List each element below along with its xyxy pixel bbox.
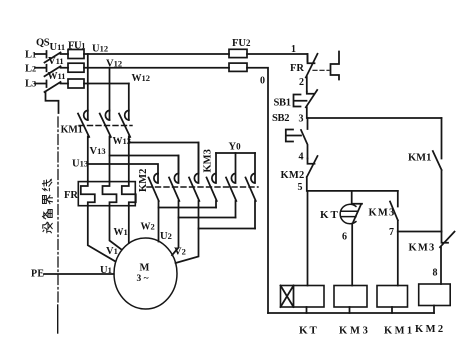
svg-text:W2: W2 xyxy=(141,222,155,233)
coil bottom wires xyxy=(307,306,435,314)
svg-text:V12: V12 xyxy=(106,59,122,70)
wire PE line xyxy=(44,273,114,275)
fuse FU1 element 3 xyxy=(68,79,84,88)
node W13 wire xyxy=(129,143,199,174)
svg-text:3: 3 xyxy=(299,114,304,125)
wire W1 to motor xyxy=(128,206,130,243)
coil KM2 xyxy=(419,284,451,306)
coil KT xyxy=(281,286,325,308)
contactor KM3 contact 2 bowl xyxy=(231,153,235,183)
node bus V2 wire xyxy=(199,228,256,230)
svg-text:2: 2 xyxy=(299,77,304,88)
svg-text:KM2: KM2 xyxy=(281,170,305,181)
contactor KM1 main contact 2 bowl xyxy=(105,110,109,119)
svg-text:M: M xyxy=(140,263,150,274)
timer KT delayed contact xyxy=(352,191,362,286)
svg-text:W1: W1 xyxy=(114,227,128,238)
node bus W2 wire xyxy=(159,201,217,208)
svg-text:V1: V1 xyxy=(106,246,118,257)
glyph xian xyxy=(43,179,52,190)
glyph bei xyxy=(43,210,53,219)
contactor KM3 NC contact (control) xyxy=(440,232,455,285)
svg-text:KM3: KM3 xyxy=(369,208,396,219)
KM1 contact 1 blade xyxy=(78,114,89,182)
relay FR NC contact xyxy=(306,54,318,92)
wire W12 xyxy=(84,83,129,85)
SB2 actuator xyxy=(286,130,301,142)
KM3 contact 1 blade xyxy=(207,178,217,208)
node bus U2 wire xyxy=(179,217,236,219)
wire L1 input xyxy=(35,51,47,58)
svg-text:L1: L1 xyxy=(25,50,36,61)
svg-text:7: 7 xyxy=(389,227,394,238)
coil KM1 xyxy=(377,286,408,308)
KM2 contact 2 blade xyxy=(169,178,179,218)
svg-text:U11: U11 xyxy=(50,42,66,53)
switch QS pole 2 blade xyxy=(45,66,69,76)
KM3 contact 2 blade xyxy=(226,178,236,218)
contactor KM3 contact 1 bowl xyxy=(212,153,216,183)
contactor KM1 main contact 3 bowl xyxy=(125,110,129,119)
svg-text:U12: U12 xyxy=(92,44,108,55)
svg-text:V2: V2 xyxy=(174,247,186,258)
wire to KT coil xyxy=(307,191,309,286)
svg-text:KM3: KM3 xyxy=(409,243,436,254)
wire U1 to motor xyxy=(88,206,116,262)
wire L2 input xyxy=(35,65,47,72)
FR actuator symbol xyxy=(331,52,340,80)
fuse FU2 element 2 xyxy=(229,63,247,71)
svg-text:KT: KT xyxy=(299,325,319,337)
svg-text:SB2: SB2 xyxy=(272,113,289,124)
svg-text:FR: FR xyxy=(290,63,304,74)
svg-text:KM1: KM1 xyxy=(408,153,431,164)
switch QS pole 3 blade xyxy=(45,82,69,92)
SB1 actuator xyxy=(294,95,307,107)
motor M circle xyxy=(114,238,177,309)
wire L3 input xyxy=(35,81,47,88)
fuse FU1 element 1 xyxy=(68,50,84,59)
node V13 wire xyxy=(110,156,179,174)
FR heater element 2 xyxy=(103,182,117,206)
contactor KM2 NC interlock contact xyxy=(307,156,318,191)
svg-text:W11: W11 xyxy=(48,71,66,82)
glyph she xyxy=(43,222,52,233)
svg-text:U2: U2 xyxy=(160,231,172,242)
contactor KM1 main contact 1 bowl xyxy=(84,110,88,119)
FR heater element 3 xyxy=(122,182,136,206)
svg-text:KM1: KM1 xyxy=(384,326,415,337)
wire V12 bus xyxy=(84,67,229,69)
wire V-phase drop xyxy=(109,68,111,120)
svg-text:FU1: FU1 xyxy=(68,40,85,51)
wire U2 to motor xyxy=(172,218,179,256)
svg-text:4: 4 xyxy=(299,152,304,163)
KM2 contact 1 blade xyxy=(149,178,159,202)
node 7 wire xyxy=(398,231,442,233)
node U13 wire xyxy=(88,164,158,174)
KM1 contact 2 blade xyxy=(100,114,111,182)
svg-text:KM1: KM1 xyxy=(61,124,83,135)
chinese text 设备界线 equipment boundary (rotated) xyxy=(43,179,53,233)
wire V1 to motor xyxy=(110,206,122,250)
wire PE jog below QS xyxy=(46,92,59,114)
svg-text:V11: V11 xyxy=(48,56,64,67)
svg-text:Y0: Y0 xyxy=(229,142,242,153)
KT coil divider and X xyxy=(281,286,294,308)
svg-text:U13: U13 xyxy=(72,159,88,170)
FR heater element 1 xyxy=(81,182,95,206)
svg-text:QS: QS xyxy=(36,38,50,49)
contactor KM2 contact 3 bowl xyxy=(194,143,198,184)
svg-text:W12: W12 xyxy=(132,73,151,84)
wire W2 to motor xyxy=(158,208,160,242)
wire node7 to KM1 coil xyxy=(397,232,399,286)
contactor KM3 NO contact (control) xyxy=(390,191,398,232)
svg-text:6: 6 xyxy=(342,232,347,243)
bottom bus wire xyxy=(268,312,434,314)
node 5 wire xyxy=(308,190,398,192)
svg-text:KT: KT xyxy=(320,209,340,221)
svg-text:5: 5 xyxy=(298,182,303,193)
svg-text:KM2: KM2 xyxy=(138,169,149,192)
KM2 contact 3 blade xyxy=(189,178,199,229)
KM3 contact 3 blade xyxy=(246,178,256,229)
svg-text:KM2: KM2 xyxy=(415,324,446,335)
svg-text:V13: V13 xyxy=(90,146,106,157)
wire control line 0 xyxy=(247,68,268,313)
KM1 contact 3 blade xyxy=(119,114,130,182)
switch QS pole 1 blade xyxy=(45,53,69,63)
KM2 KM3 linkage dashed xyxy=(147,186,258,188)
contactor KM3 contact 3 bowl xyxy=(251,153,255,183)
KM1 linkage dashed xyxy=(79,125,132,127)
svg-text:FR: FR xyxy=(64,190,78,201)
svg-text:L2: L2 xyxy=(25,63,36,74)
boundary line lower solid end xyxy=(57,305,59,333)
svg-text:8: 8 xyxy=(433,268,438,279)
fuse FU2 element 1 xyxy=(229,49,247,57)
wire U-phase drop xyxy=(87,54,89,120)
svg-text:SB1: SB1 xyxy=(274,98,291,109)
glyph jie xyxy=(43,195,53,203)
svg-text:PE: PE xyxy=(31,269,44,280)
svg-text:W13: W13 xyxy=(113,136,132,147)
node 3 wire xyxy=(308,117,442,119)
KT delay semicircle xyxy=(340,204,357,223)
contactor KM2 contact 2 bowl xyxy=(174,156,178,184)
button SB1 NC contact xyxy=(306,90,317,118)
button SB2 NO contact xyxy=(301,118,308,159)
svg-text:KM3: KM3 xyxy=(203,149,214,172)
contactor KM2 contact 1 bowl xyxy=(154,174,158,184)
coil KM3 xyxy=(334,286,367,308)
wire U12 bus xyxy=(84,53,229,55)
svg-text:1: 1 xyxy=(291,44,296,55)
svg-text:0: 0 xyxy=(260,76,265,87)
contactor KM1 NO selfhold contact xyxy=(433,118,442,232)
wire W-phase drop xyxy=(128,84,130,121)
svg-text:KM3: KM3 xyxy=(339,326,371,337)
fuse FU1 element 2 xyxy=(68,63,84,72)
wire control line 1 xyxy=(247,54,308,62)
svg-text:FU2: FU2 xyxy=(232,38,251,49)
thermal relay FR heater box xyxy=(78,182,135,206)
FR actuator link dashed xyxy=(313,69,329,71)
equipment boundary dash-dot line xyxy=(57,117,59,305)
node Y0 bus xyxy=(216,152,255,154)
wire V2 to motor xyxy=(176,229,199,264)
svg-text:3 ~: 3 ~ xyxy=(137,274,149,284)
